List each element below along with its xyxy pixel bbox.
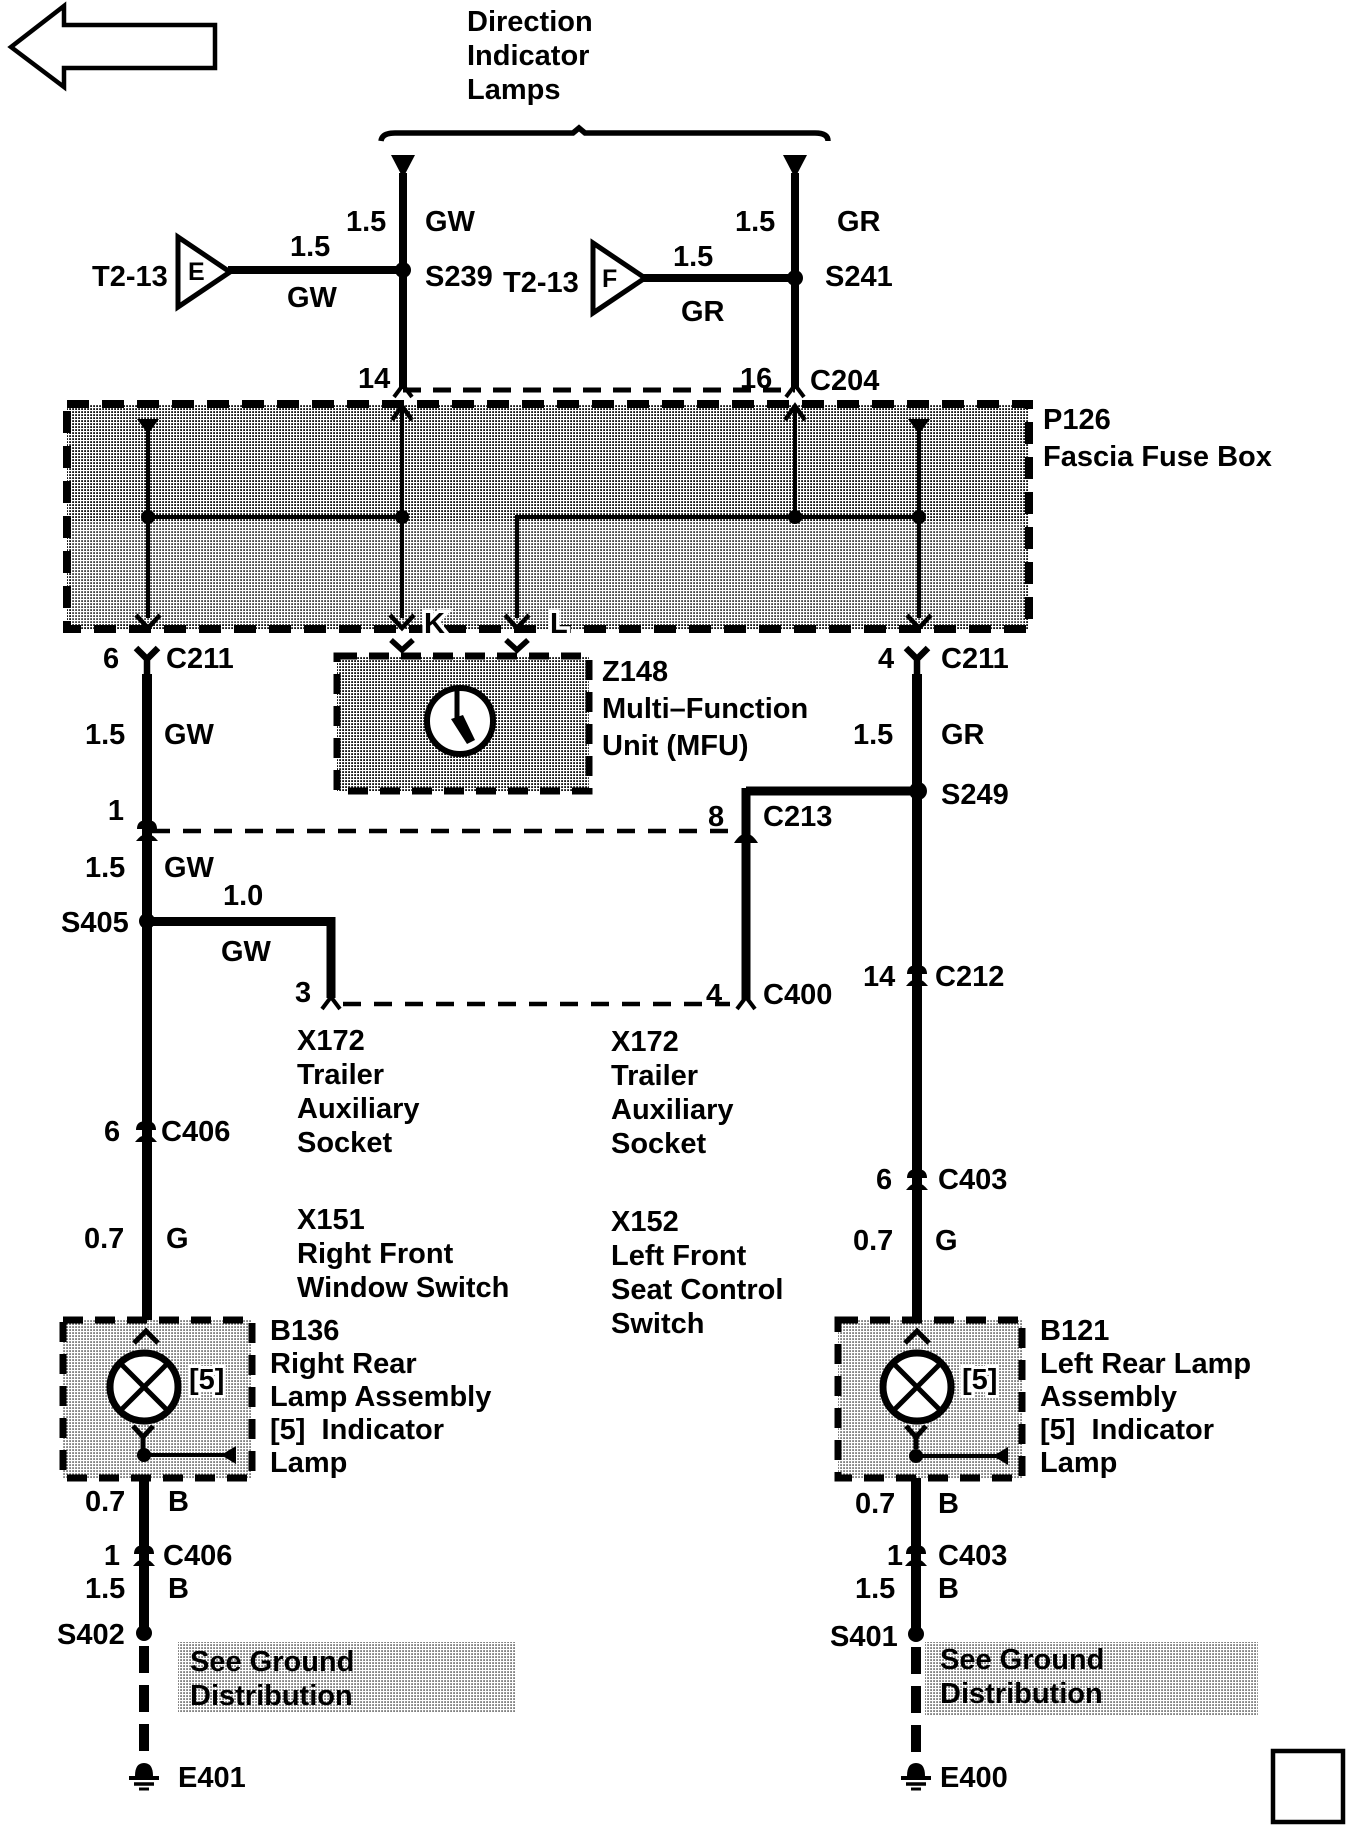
connector C212 pin 14: [863, 961, 1004, 993]
splice S249 and branch: [746, 787, 918, 796]
fuse box P126 body: [67, 404, 1029, 629]
svg-text:S401: S401: [830, 1621, 898, 1653]
svg-text:0.7: 0.7: [853, 1225, 893, 1257]
connector C406 pin 1: [104, 1540, 232, 1572]
label X172 Trailer Auxiliary Socket (left): [297, 1025, 420, 1159]
ground E400: [901, 1763, 931, 1789]
svg-text:Right Front: Right Front: [297, 1238, 454, 1270]
B136 lower connector (Y): [133, 1426, 153, 1449]
svg-text:C400: C400: [763, 979, 832, 1011]
svg-text:B: B: [938, 1573, 959, 1605]
internal arrow to rest of lamp assembly (B121): [916, 1447, 1008, 1465]
svg-text:C211: C211: [166, 643, 234, 675]
svg-text:0.7: 0.7: [84, 1223, 124, 1255]
svg-text:Trailer: Trailer: [611, 1060, 698, 1092]
label 0.7 B (right): [855, 1488, 959, 1520]
label X152 Left Front Seat Control Switch: [611, 1206, 783, 1340]
svg-text:G: G: [166, 1223, 189, 1255]
svg-text:4: 4: [878, 643, 894, 675]
svg-text:[5] Indicator: [5] Indicator: [270, 1414, 444, 1446]
svg-text:GW: GW: [164, 719, 215, 751]
fuse box internal wire: right feed column: [907, 419, 931, 628]
svg-text:S249: S249: [941, 779, 1009, 811]
svg-text:G: G: [935, 1225, 958, 1257]
svg-text:Switch: Switch: [611, 1308, 704, 1340]
connector T2-13 E (triangle off-page): [178, 237, 230, 307]
fuse box internal bus (left): [148, 515, 402, 519]
svg-text:C406: C406: [161, 1116, 230, 1148]
svg-text:Left Rear Lamp: Left Rear Lamp: [1040, 1348, 1251, 1380]
svg-text:Fascia Fuse Box: Fascia Fuse Box: [1043, 441, 1272, 473]
svg-text:GR: GR: [941, 719, 985, 751]
svg-text:1.5: 1.5: [346, 206, 386, 238]
node: B136 internal junction: [137, 1448, 151, 1462]
fuse box internal bus (right): [517, 515, 919, 519]
svg-text:E: E: [188, 258, 205, 286]
svg-text:B: B: [168, 1486, 189, 1518]
svg-text:C403: C403: [938, 1164, 1007, 1196]
svg-text:GW: GW: [164, 852, 215, 884]
label B136 Right Rear Lamp Assembly: [270, 1315, 491, 1479]
svg-text:3: 3: [295, 977, 311, 1009]
indicator lamp symbol (B121): [883, 1353, 951, 1421]
svg-text:14: 14: [863, 961, 895, 993]
svg-text:Direction: Direction: [467, 6, 593, 38]
svg-text:GW: GW: [425, 206, 476, 238]
arrowhead into wire GW (left lamp feed): [391, 155, 415, 178]
svg-text:B136: B136: [270, 1315, 339, 1347]
splice S239: [395, 262, 411, 278]
B136 top connector (inverted Y): [134, 1331, 158, 1343]
indicator lamp symbol (B136): [110, 1353, 178, 1421]
connector C211 pin 4: [878, 643, 1009, 676]
svg-text:B: B: [168, 1573, 189, 1605]
svg-text:X151: X151: [297, 1204, 365, 1236]
pin 14 wire foot: [394, 385, 412, 397]
svg-text:1.5: 1.5: [735, 206, 775, 238]
svg-text:Distribution: Distribution: [940, 1678, 1103, 1710]
wire E to S239: [228, 266, 403, 274]
svg-text:Left Front: Left Front: [611, 1240, 747, 1272]
pin 8 connector symbol: [734, 834, 758, 844]
fuse box internal wire: column from pin 14, out K: [390, 406, 414, 628]
svg-text:GR: GR: [681, 296, 725, 328]
svg-text:T2-13: T2-13: [92, 261, 168, 293]
svg-text:B: B: [938, 1488, 959, 1520]
svg-text:S405: S405: [61, 907, 129, 939]
B121 top connector (inverted Y): [905, 1331, 929, 1343]
brace over indicator lamp wires: [381, 128, 828, 141]
wire: dashed ground lead to E401: [139, 1646, 149, 1762]
page corner reference box: [1273, 1751, 1343, 1822]
svg-text:T2-13: T2-13: [503, 267, 579, 299]
ground E401: [129, 1763, 159, 1789]
svg-text:Unit (MFU): Unit (MFU): [602, 730, 749, 762]
wire 1.5 GW vertical (to S239): [399, 173, 407, 389]
connector C403 pin 6: [876, 1164, 1007, 1196]
connector C400 dashed line: [343, 1002, 730, 1007]
svg-text:X152: X152: [611, 1206, 679, 1238]
svg-text:1.5: 1.5: [853, 719, 893, 751]
svg-text:4: 4: [706, 979, 722, 1011]
fuse box internal wire: column out L: [505, 515, 529, 628]
connector C406 pin 6: [104, 1116, 230, 1148]
svg-text:0.7: 0.7: [85, 1486, 125, 1518]
svg-text:1.5: 1.5: [85, 852, 125, 884]
svg-text:K: K: [424, 608, 445, 640]
svg-text:Indicator: Indicator: [467, 40, 589, 72]
wire: B121 to ground (0.7 B): [911, 1478, 921, 1628]
svg-text:C403: C403: [938, 1540, 1007, 1572]
svg-text:L: L: [550, 608, 568, 640]
node: B121 internal junction: [909, 1449, 923, 1463]
svg-text:B121: B121: [1040, 1315, 1109, 1347]
label X172 Trailer Auxiliary Socket (right): [611, 1026, 734, 1160]
svg-text:F: F: [602, 265, 617, 293]
svg-text:1: 1: [108, 795, 124, 827]
svg-text:Socket: Socket: [297, 1127, 392, 1159]
wire: B136 to ground (0.7 B): [139, 1478, 149, 1628]
svg-text:1.0: 1.0: [223, 880, 263, 912]
svg-text:Z148: Z148: [602, 656, 668, 688]
navigation arrow (page-left pointer): [11, 6, 215, 87]
wire 1.0 GW branch to trailer socket: [147, 922, 331, 999]
svg-text:C213: C213: [763, 801, 832, 833]
svg-text:Multi–Function: Multi–Function: [602, 693, 808, 725]
lamp assembly B136 box: [63, 1320, 252, 1478]
svg-text:C406: C406: [163, 1540, 232, 1572]
svg-text:C211: C211: [941, 643, 1009, 675]
svg-text:[5] Indicator: [5] Indicator: [1040, 1414, 1214, 1446]
svg-text:P126: P126: [1043, 404, 1111, 436]
svg-text:[5]: [5]: [962, 1364, 997, 1396]
svg-text:[5]: [5]: [189, 1364, 224, 1396]
svg-text:See Ground: See Ground: [190, 1646, 354, 1678]
svg-text:C212: C212: [935, 961, 1004, 993]
svg-text:Lamps: Lamps: [467, 74, 560, 106]
title: Direction Indicator Lamps: [467, 6, 593, 106]
wire: dashed ground lead to E400: [911, 1647, 921, 1762]
wire 1.5 GR vertical (to S241): [791, 173, 799, 389]
svg-text:6: 6: [103, 643, 119, 675]
arrowhead into wire GR (right lamp feed): [783, 155, 807, 178]
svg-text:Window Switch: Window Switch: [297, 1272, 509, 1304]
svg-text:1.5: 1.5: [85, 1573, 125, 1605]
connector T2-13 F (triangle off-page): [593, 243, 645, 313]
svg-text:1.5: 1.5: [855, 1573, 895, 1605]
svg-text:X172: X172: [611, 1026, 679, 1058]
svg-text:8: 8: [708, 801, 724, 833]
svg-text:0.7: 0.7: [855, 1488, 895, 1520]
svg-text:6: 6: [104, 1116, 120, 1148]
svg-text:Trailer: Trailer: [297, 1059, 384, 1091]
svg-text:Assembly: Assembly: [1040, 1381, 1177, 1413]
svg-text:Right Rear: Right Rear: [270, 1348, 417, 1380]
svg-text:GW: GW: [221, 936, 272, 968]
svg-text:GW: GW: [287, 282, 338, 314]
pin 1 connector symbol: [136, 820, 158, 841]
svg-text:1.5: 1.5: [85, 719, 125, 751]
fuse box lower-half light wash: [72, 521, 1024, 624]
svg-text:Distribution: Distribution: [190, 1680, 353, 1712]
svg-text:C204: C204: [810, 365, 879, 397]
see ground distribution note (left): [178, 1642, 515, 1712]
svg-text:Lamp Assembly: Lamp Assembly: [270, 1381, 491, 1413]
B121 lower connector (Y): [906, 1426, 926, 1449]
pin 4 wire foot: [737, 997, 755, 1009]
svg-text:16: 16: [740, 363, 772, 395]
svg-text:GR: GR: [837, 206, 881, 238]
label X151 Right Front Window Switch: [297, 1204, 509, 1304]
svg-text:Auxiliary: Auxiliary: [611, 1094, 734, 1126]
MFU clock icon: [427, 688, 493, 754]
splice S405: [139, 913, 155, 929]
pin 16 wire foot: [786, 385, 804, 397]
connector C204 dashed interface line: [403, 388, 795, 393]
svg-text:Auxiliary: Auxiliary: [297, 1093, 420, 1125]
connector C213 dashed line: [152, 829, 730, 834]
wire: left main GW run (C211-6 down to B136): [142, 674, 152, 1320]
Z148 MFU box: [337, 640, 589, 791]
svg-text:1: 1: [887, 1540, 903, 1572]
label 1.5 B (left): [85, 1573, 189, 1605]
svg-text:S239: S239: [425, 261, 493, 293]
svg-text:Socket: Socket: [611, 1128, 706, 1160]
label 0.7 G (left): [84, 1223, 189, 1255]
pin 3 wire foot: [322, 997, 340, 1009]
svg-text:E401: E401: [178, 1762, 246, 1794]
svg-text:14: 14: [358, 363, 390, 395]
label 0.7 G (right): [853, 1225, 958, 1257]
svg-text:6: 6: [876, 1164, 892, 1196]
svg-text:S241: S241: [825, 261, 893, 293]
internal arrow to rest of lamp assembly (B136): [144, 1446, 236, 1464]
see ground distribution note (right): [925, 1642, 1258, 1715]
connector C211 pin 6: [103, 643, 234, 676]
svg-text:Lamp: Lamp: [1040, 1447, 1117, 1479]
wire: branch down through C213 to C400: [742, 788, 751, 1000]
wire F to S241: [643, 274, 795, 282]
svg-text:S402: S402: [57, 1619, 125, 1651]
lamp assembly B121 box: [838, 1320, 1022, 1478]
label B121 Left Rear Lamp Assembly: [1040, 1315, 1251, 1479]
svg-text:X172: X172: [297, 1025, 365, 1057]
fuse box internal wire: column to pin 16: [785, 406, 805, 524]
svg-text:1.5: 1.5: [290, 231, 330, 263]
splice S402: [136, 1625, 152, 1641]
svg-text:E400: E400: [940, 1762, 1008, 1794]
svg-text:Seat Control: Seat Control: [611, 1274, 783, 1306]
label 0.7 B (left): [85, 1486, 189, 1518]
fuse box internal wire: left feed column: [136, 419, 160, 628]
svg-text:1: 1: [104, 1540, 120, 1572]
svg-text:1.5: 1.5: [673, 241, 713, 273]
wire: right main GR run (C211-4 down to B121): [912, 674, 922, 1320]
svg-text:See Ground: See Ground: [940, 1644, 1104, 1676]
svg-text:Lamp: Lamp: [270, 1447, 347, 1479]
splice S401: [908, 1626, 924, 1642]
splice S241: [787, 270, 803, 286]
connector C403 pin 1: [887, 1540, 1007, 1572]
label 1.5 B (right): [855, 1573, 959, 1605]
